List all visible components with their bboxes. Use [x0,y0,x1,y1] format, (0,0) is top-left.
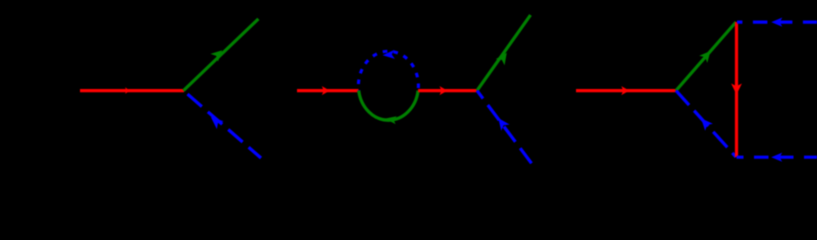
arrow on green line D2 (points up-right) [496,50,511,66]
arrow on red horizontal line D3 [621,86,629,95]
wire: incoming red fermion line D1 [80,89,184,92]
loop: green lower arc D2 [359,91,418,121]
arrow on red line D1 (points right) [125,87,130,94]
wire: blue dashed bottom horizontal line D3 [737,156,817,159]
arrow on blue arc (points left at top) [382,50,395,60]
wire: blue dashed scalar line D2 [477,91,532,164]
arrow on blue line D1 (points up-left toward vertex) [207,113,223,129]
wire: blue dashed top horizontal line D3 [737,21,817,24]
arrow on red vertical line D3 (points down) [731,84,742,95]
arrow on first red line D2 [322,86,330,95]
arrow on green line D1 (points up-right) [210,46,225,61]
wire: blue dashed scalar line D3 down-right [676,91,736,157]
wire: incoming red fermion line D2 [297,89,359,92]
arrow on bottom blue line D3 (points left) [771,153,782,162]
wire: outgoing green fermion line D2 [477,15,531,91]
arrow on green arc (points left at bottom) [384,115,397,125]
wire: blue dashed scalar line D1 [184,91,262,158]
arrow on second red line D2 [440,86,448,95]
arrow on green line D3 (points up-right) [699,47,714,62]
loop: blue dashed upper arc D2 [358,51,418,90]
arrow on top blue line D3 (points left) [771,18,782,27]
wire: incoming red fermion line D3 [576,89,676,92]
wire: middle red fermion line D2 [418,89,477,92]
arrow on blue line D2 (points up-left toward vertex) [494,115,510,131]
wire: outgoing green fermion line D1 [183,19,258,91]
wire: red vertical fermion line D3 [735,22,738,157]
arrow on blue diagonal line D3 (points up-left toward vertex) [697,115,713,131]
wire: green fermion line D3 up-right [676,22,736,91]
